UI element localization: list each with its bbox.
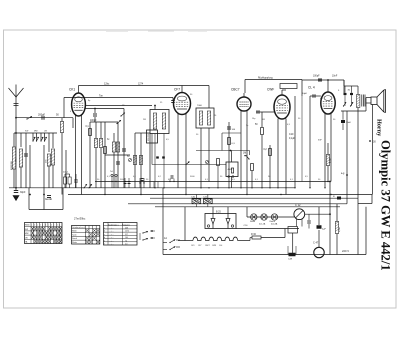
svg-text:R 30: R 30 [251, 234, 257, 236]
svg-text:Frequenz: Frequenz [122, 224, 130, 226]
svg-text:0,4M: 0,4M [330, 158, 332, 163]
svg-text:100pF: 100pF [313, 76, 320, 78]
svg-text:1: 1 [34, 225, 35, 227]
svg-text:1M: 1M [262, 119, 265, 121]
svg-text:b: b [104, 231, 105, 233]
svg-text:160: 160 [125, 237, 128, 239]
svg-text:CL4: CL4 [219, 245, 222, 247]
svg-text:Rückkopplung: Rückkopplung [258, 78, 273, 80]
svg-text:1M: 1M [243, 153, 246, 155]
svg-text:27m/39kc: 27m/39kc [74, 217, 86, 221]
svg-text:a: a [104, 227, 105, 229]
svg-text:0,4M: 0,4M [339, 227, 341, 232]
svg-text:Platte: Platte [72, 241, 77, 244]
svg-text:– + –: – + – [110, 237, 114, 239]
svg-text:Spulensatz u.: Spulensatz u. [108, 223, 119, 226]
svg-text:LW: LW [44, 131, 47, 133]
svg-text:0,1μF: 0,1μF [289, 138, 296, 140]
svg-text:1: 1 [51, 225, 52, 227]
svg-text:1274: 1274 [125, 231, 129, 233]
svg-text:– + –: – + – [110, 227, 114, 229]
svg-text:30pF: 30pF [20, 191, 26, 194]
svg-text:MW: MW [34, 131, 38, 133]
svg-text:14pF: 14pF [302, 93, 308, 95]
svg-text:1: 1 [40, 225, 41, 227]
svg-text:4x1,2A: 4x1,2A [259, 222, 266, 225]
svg-text:4μF: 4μF [322, 229, 326, 231]
svg-text:4x0,4A: 4x0,4A [271, 222, 278, 225]
svg-text:1: 1 [57, 225, 58, 227]
svg-text:CF7: CF7 [174, 88, 180, 92]
svg-text:Welle: Welle [72, 231, 77, 233]
svg-text:– + –: – + – [110, 240, 114, 242]
svg-text:CL 4: CL 4 [308, 86, 315, 90]
svg-text:Welle: Welle [25, 225, 30, 227]
svg-text:KW: KW [25, 131, 28, 133]
svg-text:Horny: Horny [376, 119, 383, 137]
svg-text:CBC7: CBC7 [205, 245, 210, 247]
svg-text:Ton: Ton [99, 95, 104, 98]
svg-text:200pF: 200pF [38, 114, 46, 117]
svg-text:– + –: – + – [110, 234, 114, 236]
svg-text:220 V: 220 V [342, 249, 349, 253]
svg-text:2x0,1: 2x0,1 [63, 172, 69, 174]
svg-text:208-508: 208-508 [148, 133, 150, 141]
svg-text:5,3: 5,3 [125, 243, 127, 245]
svg-text:C 12: C 12 [295, 203, 301, 207]
svg-text:10nF: 10nF [332, 76, 338, 78]
svg-text:1274: 1274 [138, 84, 144, 86]
svg-text:468: 468 [125, 227, 128, 229]
svg-text:12kc: 12kc [104, 83, 110, 86]
svg-text:CWF: CWF [267, 88, 274, 92]
svg-text:d: d [104, 237, 105, 239]
svg-text:C10: C10 [289, 133, 294, 136]
svg-text:800/2000: 800/2000 [11, 160, 13, 170]
svg-text:KW: KW [25, 229, 28, 231]
svg-text:Druck: Druck [72, 237, 77, 240]
svg-text:– + –: – + – [110, 231, 114, 233]
svg-text:Skala: Skala [250, 221, 256, 223]
svg-text:C 47: C 47 [313, 242, 319, 245]
svg-text:CBC7: CBC7 [231, 88, 240, 92]
svg-text:517: 517 [125, 234, 128, 236]
svg-text:7000: 7000 [197, 105, 203, 107]
svg-text:CK1: CK1 [191, 245, 195, 247]
svg-text:Olympic 37 GW E 442/1: Olympic 37 GW E 442/1 [379, 140, 393, 271]
svg-text:B 25: B 25 [216, 212, 221, 214]
svg-text:MW: MW [25, 233, 29, 235]
svg-text:Drücker a b c d: Drücker a b c d [72, 227, 84, 229]
svg-text:– + –: – + – [110, 243, 114, 245]
svg-text:e: e [104, 240, 105, 242]
svg-text:LW: LW [25, 237, 28, 239]
svg-text:5nF: 5nF [318, 140, 322, 142]
svg-text:Taste: Taste [72, 233, 77, 236]
svg-text:2M: 2M [143, 119, 146, 121]
svg-text:1A: 1A [164, 237, 167, 240]
svg-text:CK1: CK1 [69, 88, 75, 92]
svg-text:CF7: CF7 [198, 245, 201, 247]
svg-text:1: 1 [45, 225, 46, 227]
svg-text:74: 74 [125, 240, 127, 242]
